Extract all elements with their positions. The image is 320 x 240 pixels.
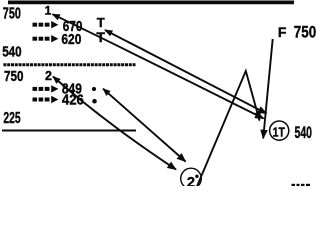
svg-text:2: 2	[187, 174, 195, 186]
svg-text:540: 540	[2, 45, 22, 61]
svg-text:750: 750	[4, 68, 24, 85]
svg-text:540: 540	[295, 124, 313, 142]
svg-text:1: 1	[45, 4, 52, 18]
svg-text:426: 426	[62, 93, 84, 109]
svg-text:T: T	[97, 15, 105, 30]
svg-text:T: T	[96, 29, 105, 45]
svg-text:2: 2	[45, 69, 52, 83]
svg-text:225: 225	[3, 110, 20, 127]
svg-text:750: 750	[3, 5, 21, 22]
svg-text:F: F	[278, 24, 287, 40]
svg-text:750: 750	[294, 23, 316, 41]
svg-text:620: 620	[61, 31, 81, 48]
svg-text:1T: 1T	[273, 124, 285, 139]
